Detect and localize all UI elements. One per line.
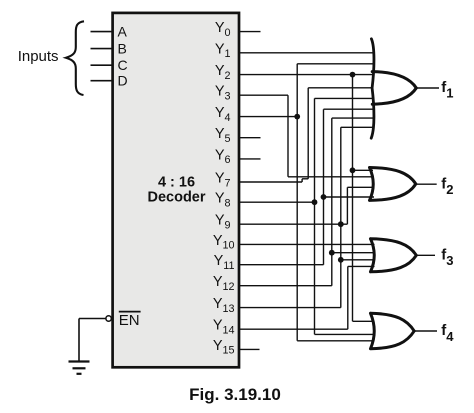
wire Y6	[239, 158, 261, 160]
wire Y14	[239, 328, 348, 330]
node Y2-f2 junction	[350, 167, 356, 173]
svg-text:EN: EN	[119, 312, 140, 329]
wire Y12	[239, 285, 332, 287]
svg-text:4 : 16: 4 : 16	[158, 175, 195, 191]
wire input A	[91, 31, 113, 33]
wire Y13	[239, 307, 341, 309]
or-gate U2 (f1)	[372, 72, 416, 105]
wire Y8 to f4	[315, 333, 375, 335]
wire Y14 vertical	[347, 266, 349, 329]
wire Y7 vertical upper	[307, 88, 309, 179]
wire Y8 vertical	[314, 98, 316, 334]
wire Y2 to f2	[353, 169, 374, 171]
wire Y10	[239, 243, 375, 245]
wire Y1	[239, 52, 373, 54]
wire Y8 to f1	[315, 97, 375, 99]
wire f1 output	[416, 87, 439, 89]
svg-text:f3: f3	[441, 247, 453, 269]
svg-text:f2: f2	[441, 175, 453, 197]
svg-text:Fig. 3.19.10: Fig. 3.19.10	[189, 385, 281, 404]
wire Y8	[239, 201, 315, 203]
wire Y9 to f2	[347, 186, 374, 188]
wire Y4 to f4	[297, 340, 374, 342]
or-gate U2 wing	[371, 39, 374, 138]
wire Y4 vertical	[296, 64, 298, 341]
wire Y3	[239, 94, 288, 96]
svg-text:C: C	[118, 57, 128, 73]
wire Y4	[239, 116, 297, 118]
svg-text:f4: f4	[441, 322, 454, 344]
wire Y13 to f3	[341, 259, 375, 261]
wire Y4 to f1	[297, 63, 373, 65]
wire Y0	[239, 31, 261, 33]
pin label EN overline	[119, 311, 141, 313]
wire Y7 jog	[302, 178, 308, 180]
wire EN horizontal	[79, 318, 106, 320]
or-gate U4 (f3)	[371, 239, 417, 272]
wire Y3 to f2	[288, 176, 374, 178]
wire Y7	[239, 181, 302, 183]
wire Y13 to f1	[341, 126, 374, 128]
node Y9 junction	[338, 221, 344, 227]
input brace	[66, 21, 84, 95]
wire Y11 to f1	[324, 108, 375, 110]
wire f2 output	[416, 183, 437, 185]
wire Y13 vertical	[340, 127, 342, 307]
node Y11 junction	[321, 194, 327, 200]
svg-text:B: B	[118, 41, 127, 57]
node Y12 junction	[329, 250, 335, 256]
wire Y2	[239, 74, 373, 76]
or-gate U3 (f2)	[370, 168, 416, 201]
node Y4 junction	[294, 114, 300, 120]
wire Y12 vertical	[331, 118, 333, 286]
wire Y14 to f3	[348, 265, 375, 267]
wire Y9	[239, 223, 347, 225]
node Y2 junction	[350, 72, 356, 78]
svg-text:f1: f1	[441, 79, 453, 101]
decoder U1 (4:16 decoder) body	[113, 13, 239, 367]
svg-text:A: A	[118, 24, 128, 40]
wire Y7 vertical lower	[301, 179, 303, 182]
svg-text:Inputs: Inputs	[18, 48, 59, 65]
wire Y12 to f1	[332, 117, 374, 119]
wire Y11 to f2	[324, 196, 375, 198]
node Y8 junction	[312, 199, 318, 205]
wire Y2 vertical	[352, 75, 354, 322]
svg-text:D: D	[118, 73, 128, 89]
wire Y11 vertical	[323, 109, 325, 265]
ground	[69, 362, 90, 374]
wire Y2 to f4	[353, 320, 375, 322]
wire EN to ground	[78, 319, 80, 362]
wire input D	[91, 80, 113, 82]
EN bubble	[106, 316, 111, 321]
node Y13 junction	[338, 257, 344, 263]
wire f3 output	[416, 254, 435, 256]
wire Y9 vertical	[346, 187, 348, 224]
wire Y11	[239, 264, 324, 266]
or-gate U5 (f4)	[371, 313, 415, 348]
wire input B	[91, 48, 113, 50]
wire Y3 vertical	[287, 95, 289, 177]
svg-text:Decoder: Decoder	[147, 190, 205, 206]
wire f4 output	[414, 330, 437, 332]
wire input C	[91, 64, 113, 66]
wire Y12 to f3	[332, 252, 375, 254]
wire Y7 to f1	[308, 87, 373, 89]
wire Y15	[239, 348, 260, 350]
wire Y5	[239, 137, 261, 139]
